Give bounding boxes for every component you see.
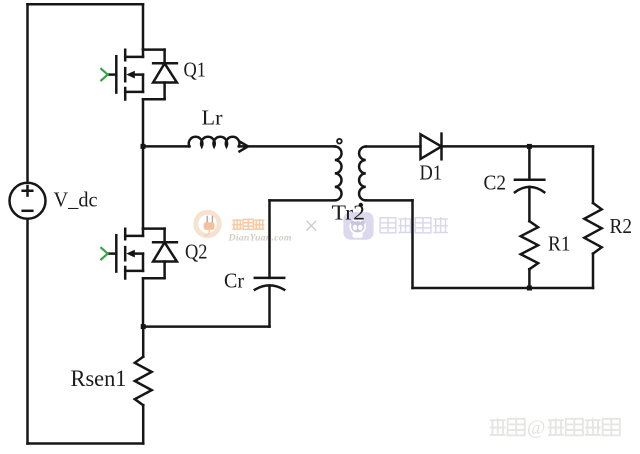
watermark dianyuan logo ring xyxy=(196,212,219,235)
svg-text:DianYuan.com: DianYuan.com xyxy=(228,233,292,244)
watermark star app text xyxy=(380,217,448,233)
watermark dianyuan text xyxy=(232,219,264,229)
watermark plug icon xyxy=(207,216,212,223)
wire secondary bottom lead xyxy=(366,199,413,202)
gate arrow Q2 (green) xyxy=(101,248,107,259)
gate arrow Q1 (green) xyxy=(101,69,107,80)
wire secondary top lead xyxy=(366,145,421,148)
primary polarity dot xyxy=(337,139,342,144)
wire primary bottom lead xyxy=(270,199,335,202)
transistor Q1 xyxy=(108,50,143,100)
wire node B to Cr xyxy=(143,325,269,328)
channel dashes xyxy=(124,50,127,100)
svg-text:×: × xyxy=(304,212,319,241)
wire Q2 source to node B xyxy=(142,278,145,326)
node D junction dot xyxy=(527,286,532,291)
svg-text:R2: R2 xyxy=(610,214,633,238)
resistor Rsen1 xyxy=(135,357,152,406)
wire Lr to transformer xyxy=(239,145,335,148)
channel dashes xyxy=(124,229,127,279)
drain vertical xyxy=(142,229,145,236)
source stub xyxy=(125,91,143,94)
transformer Tr2 secondary winding xyxy=(359,147,366,201)
wire top rail xyxy=(28,3,144,6)
wire C2 to R1 xyxy=(528,187,531,221)
gate bar xyxy=(115,235,118,271)
wire R1 bottom xyxy=(528,269,531,288)
wire node A to Lr xyxy=(143,145,189,148)
wire left rail upper xyxy=(26,4,29,183)
mid-to-source vertical xyxy=(142,254,145,271)
resistor R1 xyxy=(521,221,538,269)
wire bottom rail xyxy=(28,442,144,445)
node A junction dot xyxy=(141,144,146,149)
wire secondary left vertical xyxy=(411,200,414,288)
wire R2 top xyxy=(592,146,595,203)
watermark zhihu credit xyxy=(490,418,620,435)
body diode of Q1 xyxy=(143,50,177,100)
node C junction dot xyxy=(527,144,532,149)
gate lead xyxy=(108,73,117,76)
mid-to-source vertical xyxy=(142,75,145,92)
body diode of Q2 xyxy=(143,229,177,279)
source V_dc xyxy=(10,183,46,219)
svg-text:V_dc: V_dc xyxy=(54,188,98,212)
capacitor C2 xyxy=(515,180,544,193)
svg-text:R1: R1 xyxy=(548,232,571,256)
svg-text:Q1: Q1 xyxy=(184,58,207,82)
node B junction dot xyxy=(141,324,146,329)
current arrow xyxy=(240,141,249,151)
transistor Q2 xyxy=(108,229,143,279)
drain vertical xyxy=(142,50,145,57)
svg-text:Tr2: Tr2 xyxy=(332,201,366,225)
svg-text:C2: C2 xyxy=(484,171,507,195)
svg-text:Lr: Lr xyxy=(202,106,223,130)
wire Rsen1 to bottom rail xyxy=(142,405,145,443)
wire C2 top xyxy=(528,146,531,179)
body arrow xyxy=(133,73,143,76)
wire node A vertical (Q1 source to Q2 drain) xyxy=(142,99,145,228)
drain stub xyxy=(125,235,143,238)
svg-text:Rsen1: Rsen1 xyxy=(71,366,127,391)
svg-text:Q2: Q2 xyxy=(185,240,208,264)
wire D1 to R2 corner xyxy=(442,145,594,148)
svg-text:@: @ xyxy=(527,417,545,439)
diode D1 xyxy=(421,134,442,160)
svg-text:Cr: Cr xyxy=(224,269,244,293)
wire Cr bottom xyxy=(268,286,271,327)
body arrow xyxy=(133,252,143,255)
transformer Tr2 primary winding xyxy=(335,147,342,201)
watermark star app logo xyxy=(343,212,373,240)
wire node B to Rsen1 xyxy=(142,327,145,357)
wire Cr top xyxy=(268,200,271,278)
wire left rail lower xyxy=(26,219,29,444)
wire Q1 drain from top rail xyxy=(142,4,145,49)
drain stub xyxy=(125,56,143,59)
svg-text:D1: D1 xyxy=(420,161,443,185)
gate lead xyxy=(108,252,117,255)
resistor R2 xyxy=(584,203,601,254)
inductor Lr xyxy=(189,137,240,147)
wire R2 bottom xyxy=(592,254,595,288)
secondary polarity dot xyxy=(359,203,363,207)
capacitor Cr xyxy=(255,278,284,290)
source stub xyxy=(125,270,143,273)
wire secondary bottom rail xyxy=(413,287,594,290)
gate bar xyxy=(115,56,118,92)
